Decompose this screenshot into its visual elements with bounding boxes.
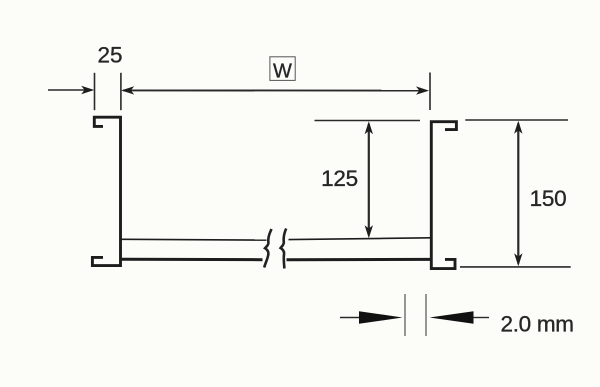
150 dim: bottom extension line xyxy=(460,266,571,268)
bottom plate bottom surface line (left of break) xyxy=(121,258,263,262)
25 dim: left extension line xyxy=(94,73,96,110)
W dim: right extension line xyxy=(429,73,431,111)
break squiggle left xyxy=(264,229,271,268)
150 dim: arrowhead up xyxy=(514,121,522,134)
bottom plate top surface line (left of break) xyxy=(121,238,267,241)
W dim: arrowhead pointing left xyxy=(121,86,134,94)
150 dim: arrowhead down xyxy=(514,253,522,266)
left wall with lips (channel section) xyxy=(92,117,120,265)
svg-text:150: 150 xyxy=(530,186,567,211)
thickness callout: big arrow pointing right xyxy=(359,311,403,324)
W label box xyxy=(270,57,295,81)
W dim: arrowhead pointing right xyxy=(416,86,429,94)
150 dim: top extension line xyxy=(465,119,568,121)
break squiggle right xyxy=(281,229,287,269)
right wall with lips (channel section) xyxy=(431,122,456,269)
25 dim: right extension line xyxy=(120,73,122,110)
bottom plate bottom surface line (right of break) xyxy=(287,258,431,261)
thickness callout: right tail line xyxy=(473,317,489,319)
thickness callout: left tail line xyxy=(340,317,360,319)
150 dim line (vertical, arrows both ends) xyxy=(517,124,519,264)
svg-text:125: 125 xyxy=(321,166,358,191)
125 dim: arrowhead down xyxy=(365,225,373,238)
thickness callout: left extension line xyxy=(404,294,406,336)
125 dim: top extension line xyxy=(315,120,421,122)
svg-text:W: W xyxy=(273,61,292,83)
25 dim: outside arrow line from left xyxy=(48,89,92,91)
thickness callout: right extension line xyxy=(425,294,427,336)
bottom plate top surface line (right of break) xyxy=(289,238,431,240)
thickness callout: big arrow pointing left xyxy=(430,311,474,324)
svg-text:2.0 mm: 2.0 mm xyxy=(501,311,574,336)
125 dim: arrowhead up xyxy=(365,121,373,134)
125 dim line (vertical, arrows both ends) xyxy=(368,124,370,235)
W dim line xyxy=(123,89,427,91)
svg-text:25: 25 xyxy=(97,43,122,68)
25 dim: arrowhead pointing right xyxy=(81,86,94,94)
